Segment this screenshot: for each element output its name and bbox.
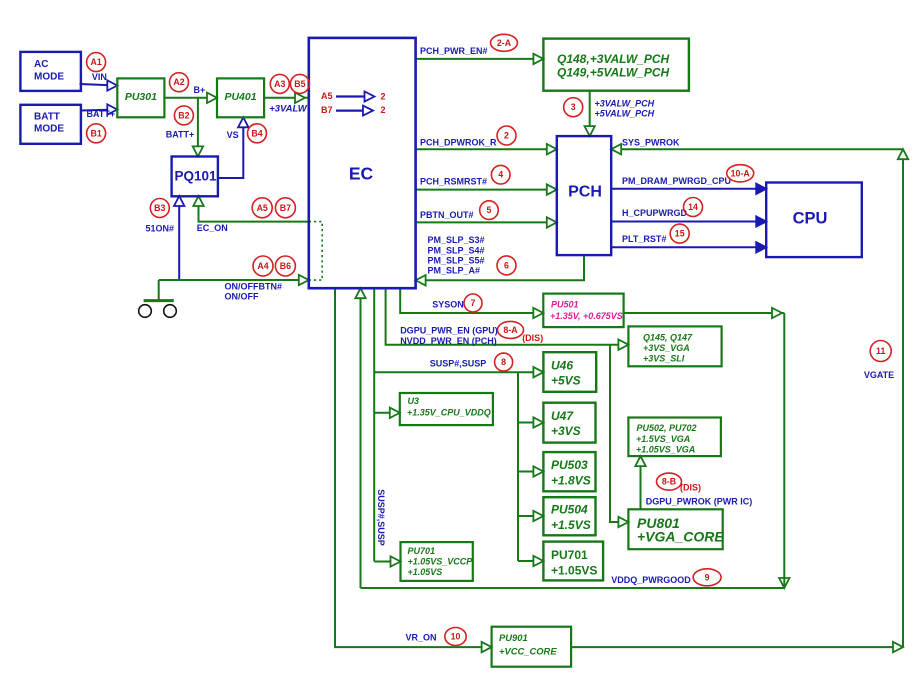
svg-text:+1.5VS: +1.5VS <box>551 518 591 532</box>
svg-text:2: 2 <box>381 105 386 115</box>
svg-text:14: 14 <box>688 202 698 212</box>
svg-text:+3VALW_PCH: +3VALW_PCH <box>595 99 655 109</box>
svg-text:PU701: PU701 <box>408 546 436 556</box>
svg-text:SUSP#,SUSP: SUSP#,SUSP <box>430 359 487 369</box>
svg-text:15: 15 <box>675 229 685 239</box>
svg-text:8-B: 8-B <box>662 477 676 487</box>
svg-text:B3: B3 <box>154 203 165 213</box>
svg-text:Q149,+5VALW_PCH: Q149,+5VALW_PCH <box>557 66 669 80</box>
svg-text:+1.05VS: +1.05VS <box>551 563 597 577</box>
svg-text:VR_ON: VR_ON <box>405 633 436 643</box>
svg-text:U3: U3 <box>408 396 420 406</box>
svg-text:EC: EC <box>349 164 374 184</box>
svg-text:(DIS): (DIS) <box>522 333 543 343</box>
svg-text:PLT_RST#: PLT_RST# <box>622 234 666 244</box>
svg-text:VGATE: VGATE <box>864 370 894 380</box>
svg-text:ON/OFFBTN#: ON/OFFBTN# <box>225 282 283 292</box>
svg-text:NVDD_PWR_EN (PCH): NVDD_PWR_EN (PCH) <box>400 336 497 346</box>
svg-text:A4: A4 <box>257 261 268 271</box>
svg-text:10-A: 10-A <box>731 168 751 178</box>
svg-text:PU503: PU503 <box>551 458 588 472</box>
svg-text:B7: B7 <box>321 105 333 115</box>
svg-text:PU901: PU901 <box>499 632 528 643</box>
svg-text:DGPU_PWROK (PWR IC): DGPU_PWROK (PWR IC) <box>646 497 753 507</box>
svg-text:+1.8VS: +1.8VS <box>551 474 591 488</box>
svg-text:ON/OFF: ON/OFF <box>225 292 259 302</box>
svg-text:PU501: PU501 <box>551 300 579 310</box>
svg-text:PU502, PU702: PU502, PU702 <box>637 423 697 433</box>
svg-text:SYS_PWROK: SYS_PWROK <box>622 138 680 148</box>
svg-text:PQ101: PQ101 <box>174 169 217 184</box>
svg-text:PU504: PU504 <box>551 503 588 517</box>
svg-text:PCH_DPWROK_R: PCH_DPWROK_R <box>420 138 497 148</box>
svg-text:B4: B4 <box>251 128 262 138</box>
svg-text:2-A: 2-A <box>497 38 512 48</box>
svg-text:U47: U47 <box>551 409 574 423</box>
svg-text:2: 2 <box>504 131 509 141</box>
svg-text:VDDQ_PWRGOOD: VDDQ_PWRGOOD <box>611 575 691 585</box>
svg-text:Q148,+3VALW_PCH: Q148,+3VALW_PCH <box>557 52 669 66</box>
svg-text:+5VS: +5VS <box>551 374 581 388</box>
svg-text:Q145, Q147: Q145, Q147 <box>643 333 693 343</box>
svg-text:+1.35V_CPU_VDDQ: +1.35V_CPU_VDDQ <box>407 407 491 417</box>
svg-text:6: 6 <box>504 260 509 270</box>
svg-text:B1: B1 <box>90 128 101 138</box>
svg-text:PM_DRAM_PWRGD_CPU: PM_DRAM_PWRGD_CPU <box>622 176 731 186</box>
svg-text:+1.35V, +0.675VS: +1.35V, +0.675VS <box>550 311 623 321</box>
svg-text:3: 3 <box>571 102 576 112</box>
svg-text:+1.05VS_VGA: +1.05VS_VGA <box>636 444 695 454</box>
svg-text:PCH: PCH <box>568 184 602 201</box>
svg-text:MODE: MODE <box>34 71 64 82</box>
svg-text:+1.5VS_VGA: +1.5VS_VGA <box>636 434 690 444</box>
svg-text:(DIS): (DIS) <box>680 483 701 493</box>
svg-text:+3VS_VGA: +3VS_VGA <box>643 343 690 353</box>
svg-text:BATT: BATT <box>34 112 60 123</box>
svg-text:CPU: CPU <box>793 210 828 228</box>
svg-text:AC: AC <box>34 59 48 70</box>
svg-text:+VGA_CORE: +VGA_CORE <box>637 529 724 545</box>
svg-text:5: 5 <box>487 205 492 215</box>
svg-text:EC_ON: EC_ON <box>197 223 228 233</box>
svg-text:A3: A3 <box>274 79 285 89</box>
svg-text:4: 4 <box>498 170 503 180</box>
svg-text:H_CPUPWRGD: H_CPUPWRGD <box>622 208 688 218</box>
svg-text:+1.05VS: +1.05VS <box>408 567 443 577</box>
svg-text:B5: B5 <box>294 79 305 89</box>
svg-text:BATT+: BATT+ <box>87 109 116 119</box>
svg-text:DGPU_PWR_EN (GPU): DGPU_PWR_EN (GPU) <box>400 326 498 336</box>
svg-text:PCH_PWR_EN#: PCH_PWR_EN# <box>420 46 488 56</box>
svg-text:+3VS: +3VS <box>551 424 581 438</box>
svg-text:7: 7 <box>471 298 476 308</box>
svg-text:U46: U46 <box>551 358 573 372</box>
svg-text:B7: B7 <box>280 203 291 213</box>
svg-text:VIN: VIN <box>92 72 107 82</box>
svg-text:PM_SLP_S5#: PM_SLP_S5# <box>428 256 485 266</box>
svg-text:+VCC_CORE: +VCC_CORE <box>499 646 557 657</box>
svg-text:PM_SLP_S4#: PM_SLP_S4# <box>428 245 485 255</box>
svg-text:+3VS_SLI: +3VS_SLI <box>643 354 685 364</box>
svg-text:B2: B2 <box>178 110 189 120</box>
svg-text:PU301: PU301 <box>125 91 157 103</box>
svg-text:51ON#: 51ON# <box>146 224 175 234</box>
svg-text:8-A: 8-A <box>503 325 518 335</box>
svg-text:+1.05VS_VCCP: +1.05VS_VCCP <box>408 557 474 567</box>
svg-text:A5: A5 <box>257 203 268 213</box>
svg-text:A5: A5 <box>321 91 333 101</box>
svg-text:10: 10 <box>451 632 461 642</box>
svg-text:11: 11 <box>876 346 885 356</box>
svg-text:A1: A1 <box>90 57 101 67</box>
svg-text:VS: VS <box>227 130 239 140</box>
svg-text:PBTN_OUT#: PBTN_OUT# <box>420 210 474 220</box>
svg-text:PU701: PU701 <box>551 548 588 562</box>
svg-text:PM_SLP_A#: PM_SLP_A# <box>428 266 481 276</box>
svg-text:2: 2 <box>381 92 386 102</box>
svg-text:+5VALW_PCH: +5VALW_PCH <box>595 109 655 119</box>
svg-text:A2: A2 <box>173 77 184 87</box>
svg-text:BATT+: BATT+ <box>166 130 195 140</box>
svg-text:PM_SLP_S3#: PM_SLP_S3# <box>428 235 485 245</box>
svg-text:MODE: MODE <box>34 124 64 135</box>
svg-text:8: 8 <box>501 357 506 367</box>
svg-text:SUSP#,SUSP: SUSP#,SUSP <box>376 489 386 546</box>
svg-text:PU401: PU401 <box>224 91 256 103</box>
svg-text:B6: B6 <box>280 261 291 271</box>
svg-text:PCH_RSMRST#: PCH_RSMRST# <box>420 177 487 187</box>
svg-text:B+: B+ <box>194 85 206 95</box>
svg-text:9: 9 <box>705 572 710 582</box>
svg-text:SYSON: SYSON <box>432 300 464 310</box>
svg-text:+3VALW: +3VALW <box>269 104 308 115</box>
